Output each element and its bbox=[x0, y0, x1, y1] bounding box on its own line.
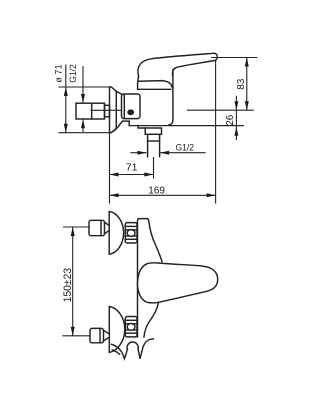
arrow ø71 down bbox=[64, 124, 68, 133]
nipple centerline bbox=[91, 109, 121, 111]
ext 150 top bbox=[64, 226, 89, 228]
body lower right edge bbox=[144, 303, 159, 338]
top taper bbox=[105, 222, 110, 234]
flange step bbox=[138, 126, 145, 129]
arrow G1/2 pipe left bbox=[160, 151, 169, 155]
clamp lip line bbox=[123, 94, 125, 118]
top bell escutcheon bbox=[109, 212, 123, 255]
dim ø71 top ext bbox=[59, 86, 110, 88]
top nut chamfer line bbox=[100, 222, 102, 235]
top inlet nut bbox=[89, 220, 105, 235]
fork inner opening bbox=[127, 342, 138, 349]
arrowheads top view bbox=[64, 58, 249, 198]
handle front view bbox=[138, 263, 218, 303]
bottom inlet nut bbox=[90, 328, 104, 342]
arrow 83 down bbox=[245, 101, 249, 110]
bottom bell escutcheon bbox=[109, 307, 125, 353]
pipe thread line bbox=[148, 140, 160, 142]
dim ø71 line bbox=[65, 65, 67, 133]
arrow 150 up bbox=[71, 227, 75, 236]
extension line wall plane bbox=[109, 133, 111, 203]
cartridge clamp (side view) bbox=[122, 94, 141, 119]
dim 150 line bbox=[72, 227, 74, 336]
bottom union nut threads bbox=[125, 317, 137, 337]
dim 150±23 bbox=[63, 227, 90, 336]
bottom nut chamfer line bbox=[99, 330, 101, 342]
top union nut threads bbox=[125, 223, 137, 243]
arrow 169 left bbox=[110, 193, 119, 197]
dim 71 line bbox=[110, 174, 154, 176]
handle base dome top bbox=[139, 81, 172, 88]
svg-text:G1/2: G1/2 bbox=[176, 142, 195, 153]
arrow 71 left bbox=[110, 173, 119, 177]
extension line 83 top bbox=[212, 57, 257, 59]
dim 169 line bbox=[110, 194, 216, 196]
spout underside line (26 upper extension) bbox=[188, 109, 254, 111]
body inner-left edge merging to bottom bbox=[169, 70, 173, 125]
svg-text:150±23: 150±23 bbox=[62, 268, 74, 303]
dim G1/2 left line lower bbox=[82, 119, 84, 131]
handle base ring line bbox=[138, 88, 171, 90]
arrow 71 right bbox=[144, 173, 153, 177]
arrow 26 down outside bbox=[234, 101, 238, 110]
fork left wing underside bbox=[112, 350, 119, 354]
shower outlet flange bbox=[145, 128, 161, 134]
handle left lower edge bbox=[138, 76, 139, 89]
dim G1/2 pipe leader right bbox=[161, 152, 206, 154]
ext 150 bottom bbox=[63, 335, 90, 337]
svg-text:26: 26 bbox=[225, 114, 236, 126]
arrow G1/2 left down bbox=[81, 94, 85, 103]
dim 26 line bbox=[235, 96, 237, 139]
body cone top edge bbox=[116, 91, 121, 94]
arrow 83 up bbox=[245, 58, 249, 67]
arrow ø71 up bbox=[64, 87, 68, 96]
body front view bbox=[138, 219, 163, 337]
body cone bottom curve bbox=[110, 121, 130, 133]
extension line faucet front bbox=[215, 61, 217, 204]
arrow 150 down bbox=[71, 327, 75, 336]
svg-text:71: 71 bbox=[126, 162, 138, 174]
shower outlet pipe bbox=[148, 134, 160, 156]
dim 83 line bbox=[246, 58, 248, 111]
bottom taper bbox=[104, 330, 109, 341]
arrow G1/2 left up bbox=[81, 119, 85, 128]
nipple thread divider bbox=[91, 103, 93, 119]
wall nipple G1/2 (side view) bbox=[76, 103, 105, 119]
dim G1/2 pipe leader left bbox=[131, 152, 146, 154]
svg-text:G1/2: G1/2 bbox=[68, 64, 78, 83]
escutcheon flange (side view) bbox=[110, 87, 117, 133]
pipe centerline bbox=[153, 158, 155, 179]
fork right prong bbox=[138, 339, 153, 359]
arrow 26 up outside bbox=[234, 127, 238, 136]
handle (side view) bbox=[138, 53, 217, 76]
svg-text:169: 169 bbox=[148, 185, 165, 196]
svg-text:ø 71: ø 71 bbox=[54, 64, 64, 83]
body bottom edge extended (26 lower extension) bbox=[129, 125, 243, 127]
clamp screw dot bbox=[127, 109, 134, 115]
shower hook fork left wing bbox=[112, 344, 128, 358]
svg-text:83: 83 bbox=[236, 78, 247, 90]
arrow 169 right bbox=[207, 193, 216, 197]
nipple stub bbox=[105, 105, 110, 117]
dim ø71 bottom ext bbox=[59, 132, 110, 134]
arrow G1/2 pipe right bbox=[137, 151, 146, 155]
dim G1/2 left line upper bbox=[82, 67, 84, 103]
